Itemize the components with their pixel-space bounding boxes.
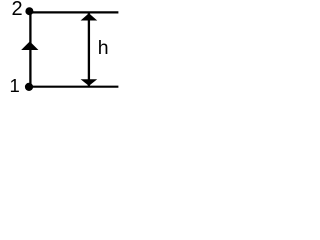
svg-text:h: h <box>98 37 109 59</box>
node 1 junction dot <box>25 83 33 91</box>
dimension line h <box>88 13 90 86</box>
dimension arrowhead top <box>81 13 98 20</box>
wire top rail <box>30 11 119 13</box>
node 2 junction dot <box>25 7 33 15</box>
svg-text:2: 2 <box>12 0 23 20</box>
dimension arrowhead bottom <box>81 79 98 86</box>
wire left vertical <box>29 12 31 87</box>
svg-text:1: 1 <box>10 75 20 96</box>
wire bottom rail <box>29 86 118 88</box>
current arrow on left wire <box>21 41 38 50</box>
